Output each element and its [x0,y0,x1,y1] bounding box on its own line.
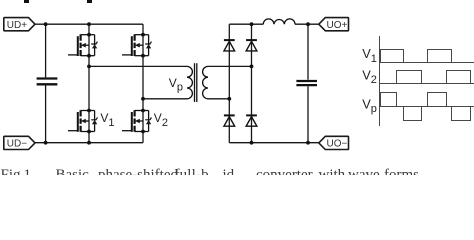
svg-text:UO+: UO+ [327,20,348,31]
svg-text:UD−: UD− [7,139,27,150]
svg-text:UD+: UD+ [7,20,27,31]
svg-text:V1: V1 [362,46,377,65]
svg-text:UO−: UO− [327,139,348,150]
svg-text:V1: V1 [100,111,114,129]
svg-text:Vp: Vp [169,76,183,94]
svg-text:Vp: Vp [362,96,377,114]
svg-text:V2: V2 [154,111,168,129]
svg-text:V2: V2 [362,67,377,86]
